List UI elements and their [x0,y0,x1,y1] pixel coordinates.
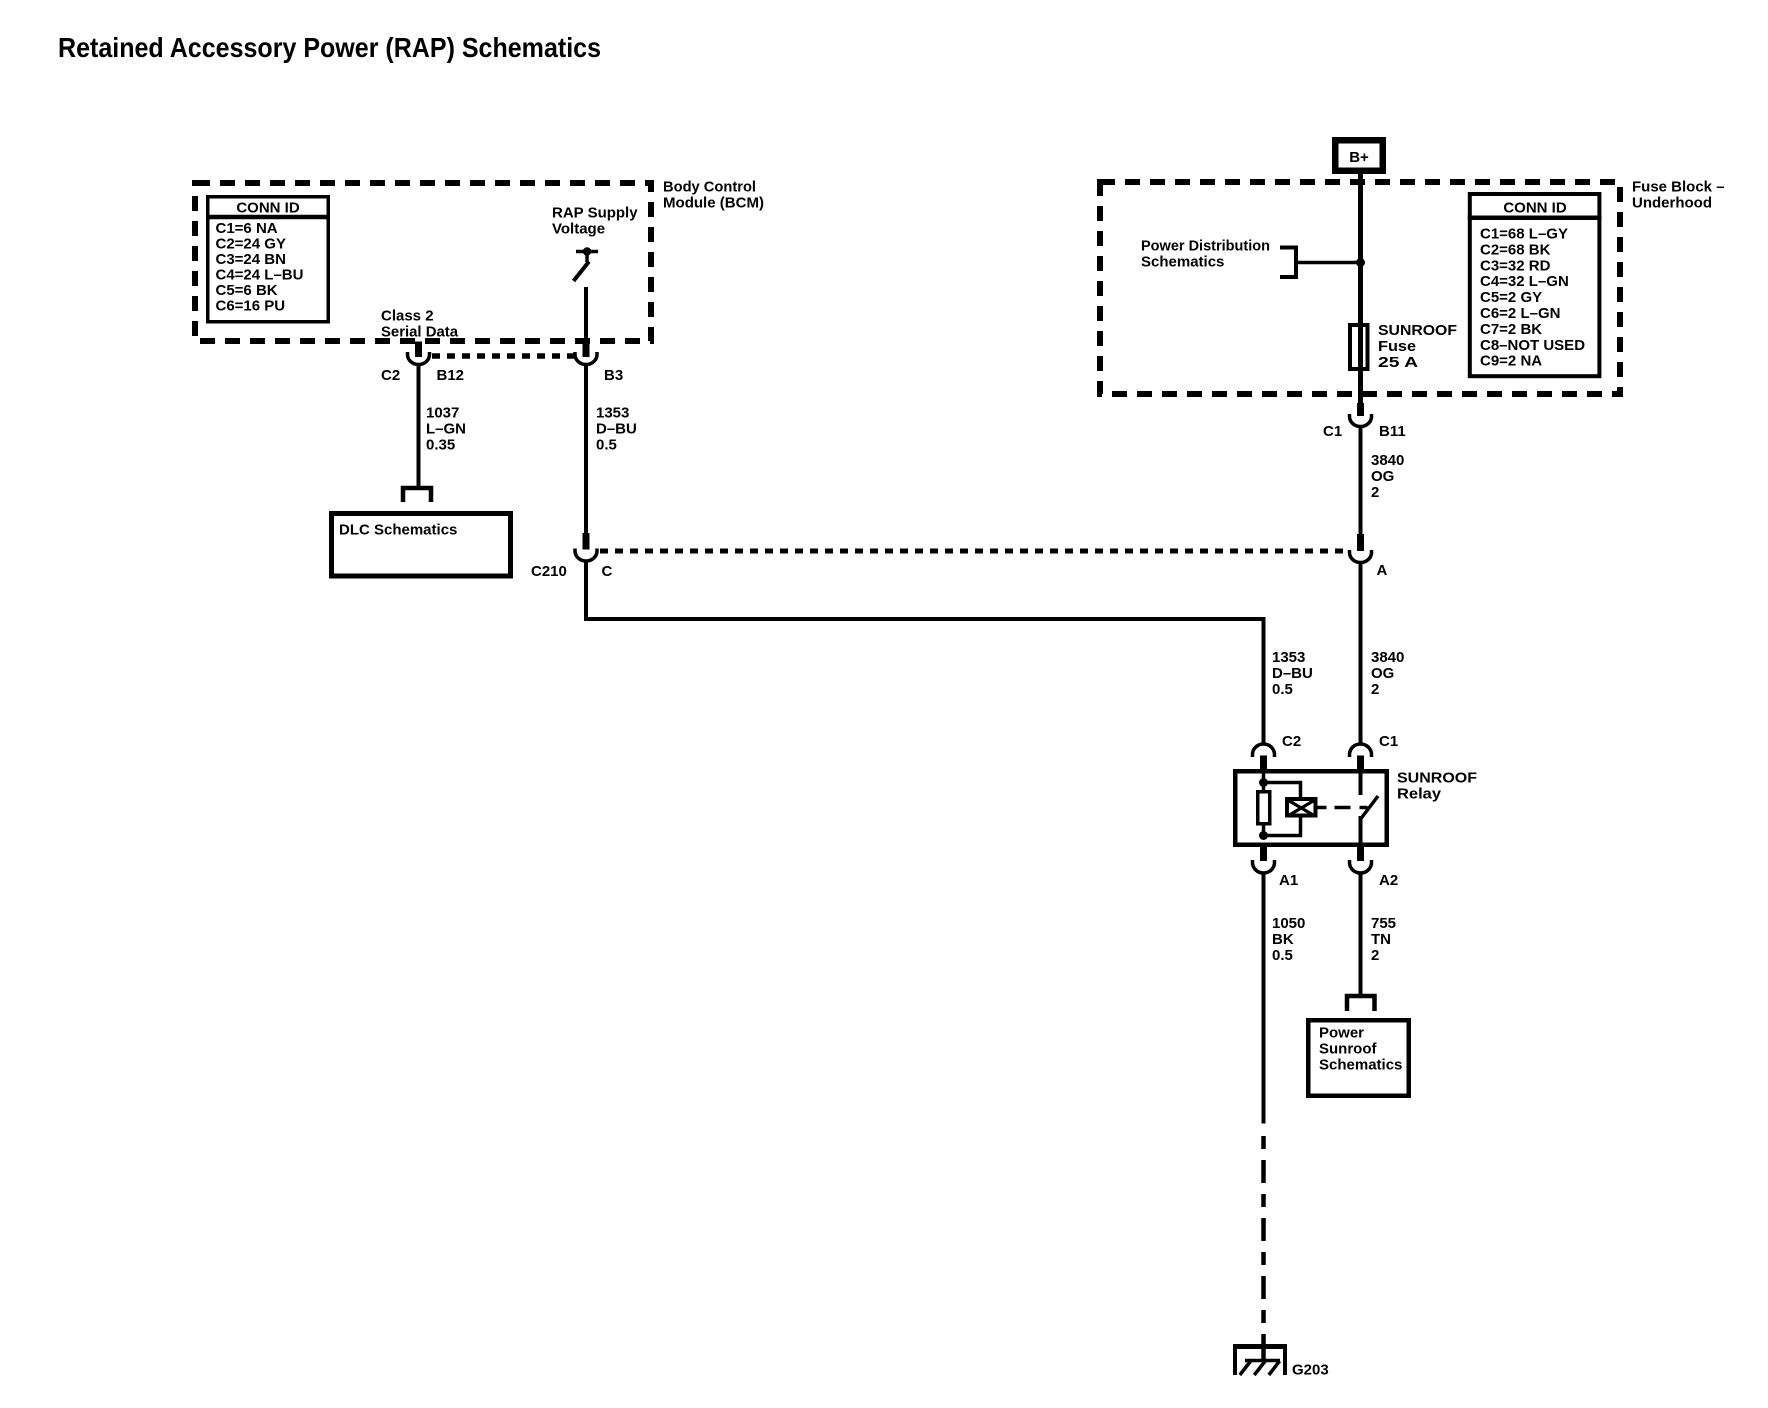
svg-text:1037: 1037 [426,405,459,422]
wire: A2 down to bracket [1359,873,1363,994]
svg-text:C5=6 BK: C5=6 BK [216,282,278,299]
svg-text:Schematics: Schematics [1141,254,1224,271]
svg-text:B11: B11 [1379,423,1406,440]
svg-text:755: 755 [1371,915,1396,932]
wire: B+ down through fuse to B11 [1358,174,1363,403]
resistor R in relay [1258,792,1270,824]
mechanical link dashed [1318,806,1368,810]
connector B11 pin [1357,403,1364,416]
svg-text:C2=68 BK: C2=68 BK [1480,241,1551,258]
svg-text:2: 2 [1371,484,1379,501]
svg-text:Retained Accessory Power (RAP): Retained Accessory Power (RAP) Schematic… [58,32,601,63]
svg-text:Module (BCM): Module (BCM) [663,195,764,212]
svg-text:A1: A1 [1279,872,1298,889]
svg-text:C8–NOT USED: C8–NOT USED [1480,337,1585,354]
svg-text:C1: C1 [1323,423,1342,440]
svg-text:2: 2 [1371,681,1379,698]
wire label 1050 BK 0.5 [1272,915,1305,964]
svg-text:0.5: 0.5 [1272,947,1293,964]
svg-text:25 A: 25 A [1378,354,1418,371]
svg-text:D–BU: D–BU [596,421,637,438]
BCM label [663,179,764,212]
BCM CONN ID table [206,197,330,322]
connector B11 socket arc [1350,414,1372,427]
svg-text:OG: OG [1371,468,1394,485]
svg-text:OG: OG [1371,665,1394,682]
Power Distribution label [1141,238,1270,271]
svg-text:Relay: Relay [1397,786,1442,803]
svg-text:1050: 1050 [1272,915,1305,932]
wire: switch to A2 [1359,816,1363,845]
Fuse Block label [1632,179,1725,212]
svg-text:3840: 3840 [1371,452,1404,469]
connector A socket arc [1350,550,1372,563]
svg-text:C9=2 NA: C9=2 NA [1480,353,1542,370]
Fuse block CONN ID table [1468,194,1602,376]
svg-text:Power: Power [1319,1025,1364,1042]
svg-text:C3=32 RD: C3=32 RD [1480,257,1551,274]
svg-text:RAP Supply: RAP Supply [552,205,638,222]
svg-text:C7=2 BK: C7=2 BK [1480,321,1542,338]
wire label 3840 OG 2 upper [1371,452,1404,501]
wire label 1037 L-GN 0.35 [426,405,466,454]
wire label 1353 D-BU 0.5 [596,405,637,454]
relay connector C2 socket arc [1253,744,1275,757]
wire: bracket to main feed [1296,261,1361,265]
wire: relay C1 to switch contact [1359,772,1363,795]
svg-text:C6=2 L–GN: C6=2 L–GN [1480,305,1560,322]
wire: A1 dashed continuation [1261,1136,1266,1338]
svg-text:A2: A2 [1379,872,1398,889]
svg-text:B3: B3 [604,367,623,384]
svg-text:Fuse Block –: Fuse Block – [1632,179,1725,196]
relay connector A1 socket arc [1253,860,1275,873]
connector B3 socket arc [575,352,597,365]
wire: B12 to DLC bracket [417,365,421,487]
svg-text:C6=16 PU: C6=16 PU [216,298,286,315]
svg-text:Fuse: Fuse [1378,338,1416,355]
svg-text:0.35: 0.35 [426,437,455,454]
relay connector C1 socket arc [1350,744,1372,757]
wire: RAP switch to B3 pin [584,287,588,343]
BCM dashed box [195,183,651,341]
svg-text:2: 2 [1371,947,1379,964]
wire: class 2 serial data dotted link B12 to B3 [432,353,575,359]
svg-text:C1=68 L–GY: C1=68 L–GY [1480,226,1568,243]
svg-text:C: C [602,563,613,580]
svg-text:C4=24 L–BU: C4=24 L–BU [216,267,304,284]
svg-text:Voltage: Voltage [552,221,605,238]
svg-text:SUNROOF: SUNROOF [1378,322,1457,339]
svg-text:C2: C2 [1282,733,1301,750]
svg-text:CONN ID: CONN ID [1503,200,1567,217]
wire label 755 TN 2 [1371,915,1396,964]
relay connector C1 pin [1357,756,1364,773]
svg-text:C3=24 BN: C3=24 BN [216,251,286,268]
power sunroof off-page connector bracket [1347,996,1375,1011]
ground G203 [1233,1338,1287,1375]
svg-text:DLC Schematics: DLC Schematics [339,522,457,539]
SUNROOF Relay label [1397,770,1477,803]
svg-text:1353: 1353 [596,405,629,422]
svg-text:D–BU: D–BU [1272,665,1313,682]
svg-text:SUNROOF: SUNROOF [1397,770,1477,787]
B+ power symbol [1335,140,1383,171]
svg-text:L–GN: L–GN [426,421,466,438]
RAP Supply Voltage label [552,205,638,238]
svg-text:Power Distribution: Power Distribution [1141,238,1270,255]
svg-text:1353: 1353 [1272,649,1305,666]
svg-text:0.5: 0.5 [596,437,617,454]
Power Sunroof Schematics box [1308,1020,1409,1096]
wire: A1 down solid [1262,873,1266,1124]
svg-text:B12: B12 [437,367,465,384]
svg-text:B+: B+ [1349,149,1369,166]
svg-text:C4=32 L–GN: C4=32 L–GN [1480,273,1569,290]
relay coil solenoid box [1287,799,1316,816]
connector C210 socket arc [575,549,597,562]
svg-text:C1: C1 [1379,733,1398,750]
SUNROOF fuse label [1378,322,1457,371]
relay connector C2 pin [1260,756,1267,773]
relay connector A1 pin [1260,845,1267,861]
svg-text:Schematics: Schematics [1319,1057,1402,1074]
svg-text:Sunroof: Sunroof [1319,1041,1377,1058]
svg-text:0.5: 0.5 [1272,681,1293,698]
wire: top branch to coil [1264,783,1301,800]
svg-text:C210: C210 [531,563,567,580]
wire: A to relay C1 [1359,562,1363,744]
junction dot bottom [1259,831,1268,840]
relay connector A2 pin [1357,845,1364,861]
RAP supply voltage switch [574,247,599,281]
junction node [1356,258,1365,267]
wire label 3840 OG 2 lower [1371,649,1404,698]
connector A pin [1357,534,1364,551]
connector B12 pin [415,342,422,358]
wire: relay coil left leg [1262,772,1266,836]
junction dot top [1259,778,1268,787]
svg-text:A: A [1377,562,1388,579]
DLC off-page connector bracket [403,488,431,502]
svg-text:Serial Data: Serial Data [381,324,459,341]
wire: bottom branch to coil [1264,817,1301,836]
svg-text:TN: TN [1371,931,1391,948]
power distribution bracket [1280,248,1296,278]
wire: C210 down, jog right, to relay C2 [586,561,1264,744]
relay K1 SUNROOF Relay box [1235,771,1387,845]
connector C210 pin [583,533,590,550]
DLC Schematics box [332,514,511,577]
wire label 1353 D-BU 0.5 lower [1272,649,1313,698]
SUNROOF fuse body [1350,325,1368,369]
wire: B3 to C210 [584,365,588,533]
svg-text:C5=2 GY: C5=2 GY [1480,289,1542,306]
relay connector A2 socket arc [1350,860,1372,873]
svg-text:Class 2: Class 2 [381,308,434,325]
connector B3 pin [583,342,590,358]
svg-text:3840: 3840 [1371,649,1404,666]
svg-text:C2=24 GY: C2=24 GY [216,236,286,253]
svg-text:G203: G203 [1292,1362,1329,1379]
Class 2 Serial Data label [381,308,459,341]
svg-text:C1=6 NA: C1=6 NA [216,220,278,237]
svg-text:Underhood: Underhood [1632,195,1712,212]
wire: B11 to A [1359,427,1363,535]
Fuse Block dashed box [1100,182,1620,394]
relay switch blade [1361,796,1378,819]
svg-text:CONN ID: CONN ID [236,200,300,217]
svg-text:BK: BK [1272,931,1294,948]
svg-text:Body Control: Body Control [663,179,756,196]
wire: dotted link C210 to A [600,549,1348,554]
svg-text:C2: C2 [381,367,400,384]
connector B12 socket arc [408,352,430,365]
